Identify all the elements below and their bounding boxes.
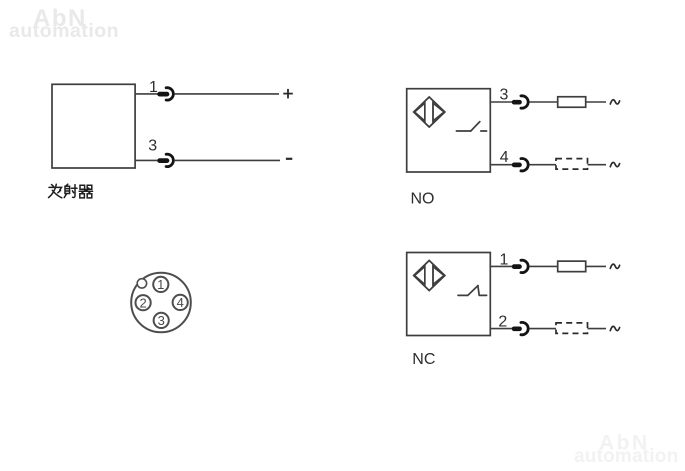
connector pin (male) NC-1 (514, 264, 519, 269)
svg-text:NO: NO (411, 191, 435, 208)
svg-text:3: 3 (158, 313, 165, 328)
continuation tilde NO-4 (610, 162, 619, 166)
photoelectric sensor symbol (NC box) (414, 261, 445, 291)
svg-text:4: 4 (500, 149, 509, 166)
wire to load NO-4 (529, 164, 556, 166)
svg-text:3: 3 (499, 87, 508, 104)
svg-text:1: 1 (499, 252, 508, 269)
svg-text:4: 4 (177, 295, 184, 310)
connector pin (male) NC-2 (514, 326, 519, 331)
transmitter box U1 (52, 84, 135, 168)
connector socket arc NO-4 (521, 159, 528, 171)
photoelectric sensor symbol (NO box) (414, 97, 445, 127)
wire after load NO-4 (588, 164, 607, 166)
svg-text:1: 1 (157, 277, 164, 292)
watermark top-left (9, 5, 119, 42)
svg-text:automation: automation (574, 446, 678, 467)
NO sensor box U2 (407, 89, 491, 172)
connector socket arc NC-1 (521, 260, 528, 272)
NC switch contact (458, 286, 487, 296)
connector socket arc NC-2 (521, 322, 528, 334)
pin 1 circle (153, 277, 168, 292)
load resistor (solid) NC-1 (558, 261, 586, 272)
continuation tilde NO-3 (610, 100, 619, 104)
+ terminal (283, 89, 293, 99)
connector pin (male) NO-4 (514, 163, 519, 168)
continuation tilde NC-2 (610, 326, 619, 330)
pin 4 circle (173, 295, 188, 310)
- terminal (286, 158, 292, 160)
load resistor (dashed) NO-4 (556, 159, 588, 170)
load resistor (dashed) NC-2 (556, 323, 588, 334)
wire: plug to + terminal (175, 93, 279, 95)
load resistor (solid) NO-3 (558, 97, 586, 108)
wire: NO box pin4 (490, 164, 513, 166)
svg-text:NC: NC (412, 351, 435, 368)
wire: plug to - terminal (175, 159, 280, 161)
wire: transmitter pin1 to plug (135, 93, 158, 95)
wire to load NC-2 (529, 328, 556, 330)
svg-text:2: 2 (498, 314, 507, 331)
svg-text:1: 1 (149, 79, 158, 96)
svg-text:2: 2 (139, 295, 146, 310)
NC sensor box U3 (407, 253, 491, 336)
wire to load NO-3 (529, 101, 557, 103)
pin 3 circle (154, 313, 169, 328)
wire after load NO-3 (586, 101, 606, 103)
NO switch contact (456, 122, 486, 131)
wire: NC box pin1 (490, 265, 513, 267)
connector socket arc NO-3 (521, 96, 528, 108)
wire to load NC-1 (529, 265, 557, 267)
connector pin (male) wire3 (160, 158, 167, 163)
wire: transmitter pin3 to plug (135, 159, 158, 161)
connector pin (male) NO-3 (514, 100, 519, 105)
svg-text:3: 3 (148, 138, 157, 155)
connector pin (male) wire1 (160, 92, 167, 97)
wire: NC box pin2 (490, 328, 513, 330)
wire: NO box pin3 (490, 101, 513, 103)
svg-text:automation: automation (9, 20, 119, 42)
watermark bottom-right (574, 431, 678, 467)
pin 2 circle (136, 295, 151, 310)
connector socket arc wire3 (166, 154, 173, 166)
wire after load NC-1 (586, 265, 606, 267)
connector socket arc wire1 (166, 88, 173, 100)
M12 connector face view (131, 273, 191, 333)
continuation tilde NC-1 (610, 264, 619, 268)
wire after load NC-2 (588, 328, 607, 330)
keying notch (137, 279, 146, 288)
label 发射器 (transmitter) drawn as paths (49, 184, 93, 198)
